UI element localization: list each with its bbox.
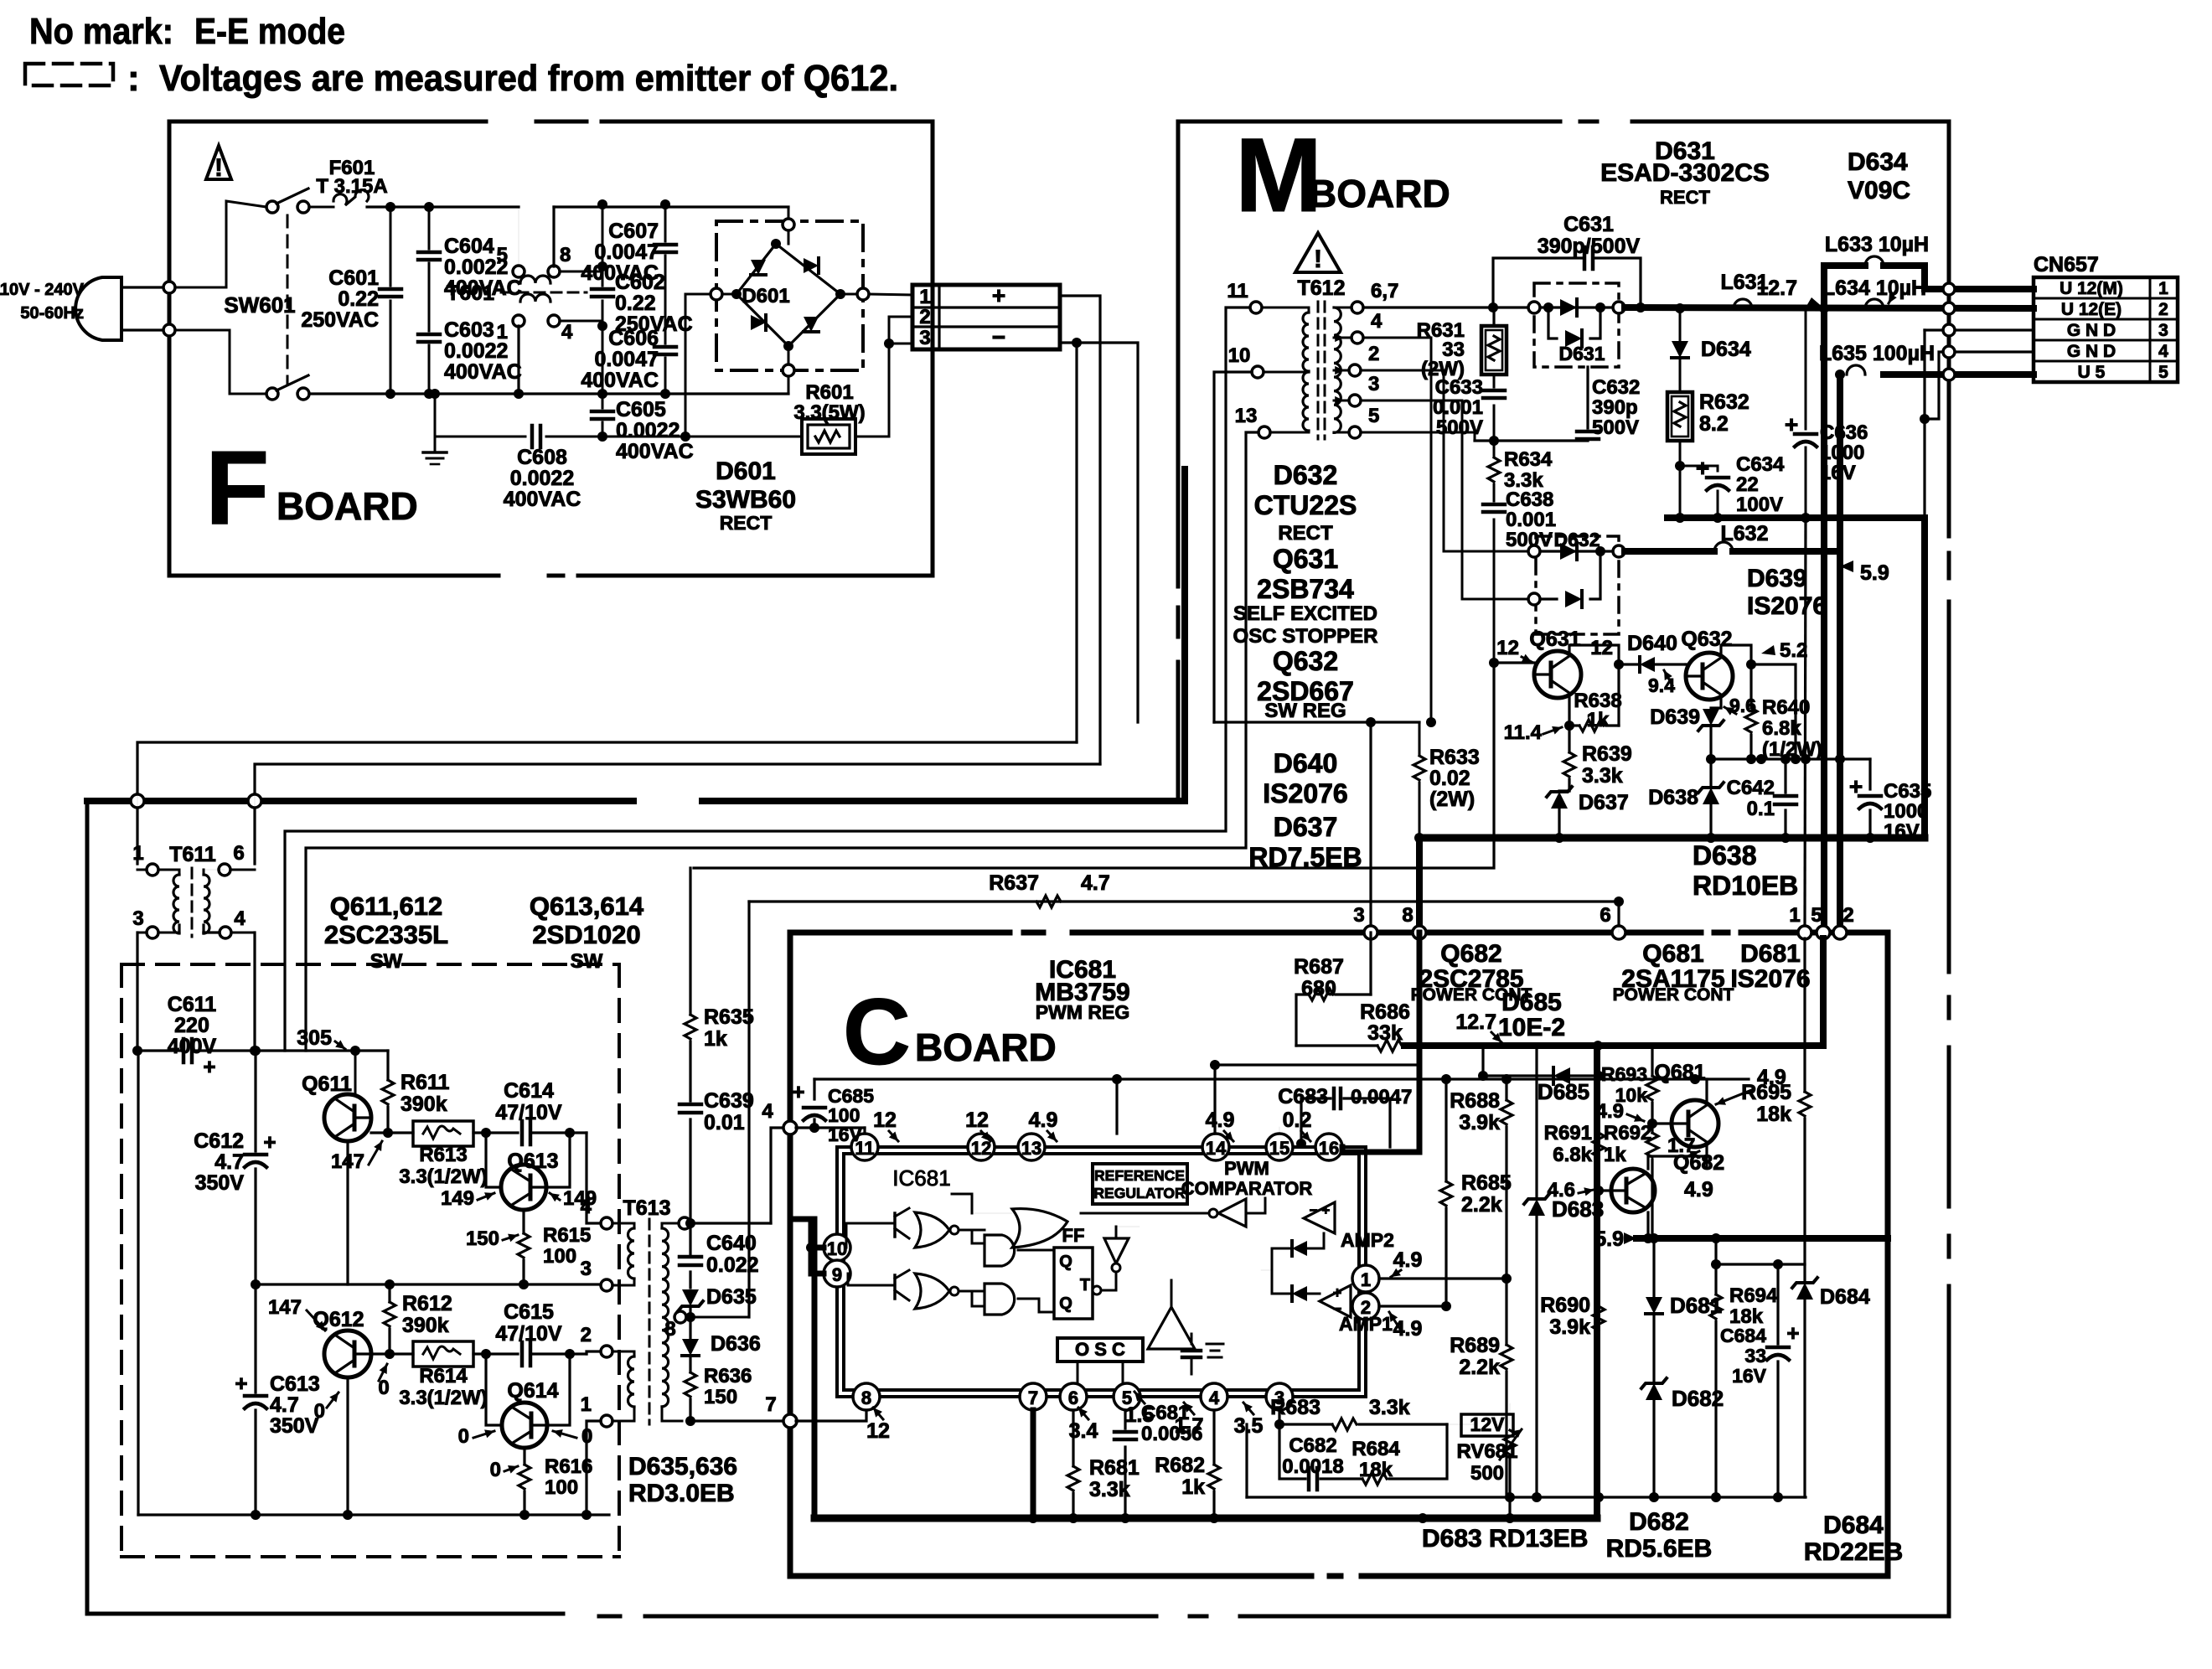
svg-text:C604: C604 [444, 235, 494, 258]
svg-text:(1/2W): (1/2W) [1762, 738, 1822, 761]
svg-text:C606: C606 [608, 327, 659, 350]
svg-text:E-E mode: E-E mode [194, 11, 345, 52]
svg-text:D636: D636 [711, 1332, 761, 1356]
diode D685 [1506, 1075, 1507, 1077]
svg-text:2: 2 [1368, 343, 1379, 365]
svg-text:220: 220 [174, 1014, 209, 1037]
resistor R614 boxed [413, 1341, 473, 1367]
svg-text:4.9: 4.9 [1596, 1100, 1624, 1123]
M board border [1178, 121, 1560, 586]
svg-text:REFERENCE: REFERENCE [1094, 1167, 1185, 1184]
svg-text:5: 5 [1368, 405, 1379, 427]
svg-text:1: 1 [1361, 1269, 1371, 1290]
svg-text:0.2: 0.2 [1283, 1108, 1312, 1132]
svg-text:+: + [203, 1054, 215, 1079]
svg-text:0.1: 0.1 [1747, 798, 1775, 820]
diode D681 [1652, 1238, 1655, 1296]
svg-text:D685: D685 [1501, 989, 1562, 1016]
capacitor C640 [689, 1223, 691, 1254]
resistor R688 [1505, 1079, 1507, 1100]
OSC box [1057, 1338, 1143, 1362]
fuse F601 [309, 206, 333, 209]
svg-text:6.8k: 6.8k [1553, 1144, 1592, 1166]
svg-text:R633: R633 [1429, 746, 1480, 769]
RV681 [1461, 1414, 1513, 1436]
wire T612 pin 6,7 to D631 [1363, 306, 1534, 308]
diode D636 [689, 1317, 691, 1338]
svg-text:400VAC: 400VAC [444, 360, 522, 384]
svg-text:R692: R692 [1604, 1122, 1651, 1145]
svg-text:4.9: 4.9 [1029, 1108, 1058, 1132]
capacitor C614 [520, 1121, 525, 1145]
wire bridge left vertex to R601 line [685, 294, 690, 437]
svg-text:0: 0 [378, 1377, 389, 1399]
svg-text:250VAC: 250VAC [301, 308, 379, 332]
resistor R686 [1296, 1044, 1377, 1046]
svg-text:0.22: 0.22 [338, 287, 379, 311]
IC681 outer double box [837, 1147, 1366, 1397]
svg-text:D638: D638 [1648, 786, 1698, 809]
svg-text::: : [127, 58, 140, 99]
svg-text:2.2k: 2.2k [1459, 1356, 1500, 1379]
svg-text:33: 33 [1744, 1345, 1766, 1367]
wire nested L y=1012 [306, 432, 1258, 1051]
wire y=862 (R633 feed) [1214, 721, 1419, 723]
wire thick left col [812, 1219, 818, 1518]
resistor R639 [1563, 752, 1575, 777]
svg-text:12.7: 12.7 [1455, 1010, 1496, 1034]
resistor R633 [1419, 722, 1421, 754]
capacitor C606 [664, 358, 667, 394]
T612 core [1317, 302, 1320, 439]
L632 + thick 5.9 rail [1625, 548, 1714, 555]
svg-text:IC681: IC681 [892, 1165, 950, 1191]
svg-text:R611: R611 [401, 1071, 449, 1094]
svg-text:C: C [843, 979, 911, 1084]
comparator OR gate [1012, 1209, 1067, 1248]
wire R601 left line y=521 [435, 436, 525, 438]
wire nested L y=912 [255, 764, 1100, 864]
wire nested L y=992 [285, 307, 1250, 1051]
svg-text:3: 3 [919, 327, 930, 349]
svg-text:33k: 33k [1367, 1021, 1403, 1045]
svg-text:C640: C640 [706, 1232, 757, 1255]
wire T612 pin3 into D632 [1361, 400, 1528, 599]
svg-text:4: 4 [1371, 310, 1382, 333]
svg-text:+: + [992, 282, 1005, 308]
svg-text:6: 6 [233, 842, 244, 865]
diode D685 [1553, 1067, 1570, 1084]
svg-text:R682: R682 [1155, 1454, 1205, 1477]
svg-text:C632: C632 [1592, 376, 1640, 399]
svg-text:12.7: 12.7 [1756, 276, 1797, 300]
svg-text:RECT: RECT [1278, 522, 1333, 545]
transistor Q614 [502, 1403, 547, 1448]
C board top pins [1364, 926, 1377, 939]
wire pin7 to C board [690, 1419, 784, 1422]
zener D682 [1646, 1383, 1662, 1400]
svg-text:149: 149 [441, 1187, 474, 1210]
svg-text:390p: 390p [1592, 396, 1638, 419]
wire pin5 down [1124, 1410, 1126, 1429]
svg-text:4.7: 4.7 [1081, 871, 1110, 895]
OR gate 1 [915, 1212, 949, 1248]
svg-text:R639: R639 [1582, 742, 1632, 766]
svg-text:R693: R693 [1601, 1063, 1647, 1085]
svg-text:C608: C608 [517, 446, 567, 469]
resistor R634 [1493, 441, 1496, 456]
transistor Q632 [1686, 653, 1733, 700]
svg-text:2: 2 [1842, 904, 1853, 927]
svg-text:390p/500V: 390p/500V [1538, 235, 1641, 258]
svg-text:S3WB60: S3WB60 [695, 486, 796, 514]
wire - output riser [1060, 343, 1138, 722]
svg-text:R613: R613 [419, 1144, 467, 1166]
svg-text:D637: D637 [1274, 812, 1338, 842]
T612 primary winding [1303, 313, 1309, 371]
svg-text:0.02: 0.02 [1429, 767, 1470, 790]
svg-text:22: 22 [1736, 473, 1759, 496]
svg-text:0.022: 0.022 [706, 1253, 759, 1277]
wire pin8 riser [552, 207, 555, 266]
svg-text:0: 0 [490, 1459, 501, 1481]
M right border wires crossing [1943, 283, 1955, 295]
svg-text:0.0047: 0.0047 [1351, 1086, 1412, 1108]
svg-text:Q631: Q631 [1273, 544, 1338, 574]
svg-text:ESAD-3302CS: ESAD-3302CS [1600, 159, 1770, 187]
wire pin6 col down [1618, 902, 1620, 933]
svg-text:SW: SW [571, 950, 603, 973]
svg-text:R635: R635 [704, 1005, 754, 1029]
svg-text:D682: D682 [1629, 1508, 1689, 1536]
wire pin4 right [560, 321, 602, 326]
wire R637 left leg [747, 902, 750, 1317]
svg-text:+: + [263, 1129, 276, 1155]
Q681 collector up [1705, 1079, 1708, 1102]
svg-text:C639: C639 [704, 1089, 754, 1113]
svg-text:16: 16 [1319, 1138, 1339, 1159]
capacitor C603 [428, 327, 431, 331]
resistor R640 [1749, 664, 1752, 706]
zener D683 [1535, 1046, 1538, 1198]
svg-text:F: F [205, 430, 269, 546]
svg-text:350V: 350V [195, 1171, 245, 1195]
svg-text:D637: D637 [1579, 791, 1629, 814]
svg-text:5.9: 5.9 [1860, 561, 1889, 585]
diode D681 [1646, 1297, 1662, 1314]
svg-text:3: 3 [581, 1258, 592, 1280]
svg-text:C603: C603 [444, 318, 494, 342]
svg-text:R683: R683 [1270, 1396, 1320, 1419]
capacitor C685 [813, 1119, 815, 1128]
C board border [790, 930, 1010, 936]
svg-text:8: 8 [560, 244, 571, 266]
T613 core [649, 1219, 651, 1424]
resistor R611 [386, 1051, 389, 1080]
wire pin5 lower [1820, 938, 1827, 1046]
capacitor C605 [602, 394, 604, 408]
svg-text:+: + [792, 1079, 804, 1104]
Q682 emitter down / 5.9 rail [1646, 1212, 1649, 1238]
wire bottom rail [138, 1513, 609, 1516]
svg-text:C601: C601 [328, 266, 379, 290]
svg-text:Q613: Q613 [507, 1150, 558, 1173]
comparator triangle [1218, 1199, 1246, 1227]
capacitor C602 [602, 204, 604, 286]
svg-text:R601: R601 [805, 381, 853, 404]
svg-text:4.7: 4.7 [270, 1393, 299, 1417]
svg-text:T: T [1080, 1276, 1090, 1294]
wire R683 loop to y1787 [1447, 1424, 1475, 1425]
svg-text:3.3k: 3.3k [1369, 1396, 1410, 1419]
wire thick col [1594, 1046, 1600, 1518]
svg-text:1: 1 [497, 321, 508, 344]
SW601 link [287, 215, 289, 384]
resistor R695 [1803, 938, 1806, 1092]
RV681 symbol [1504, 1430, 1516, 1455]
transistor Q682 [1611, 1169, 1655, 1212]
svg-text:2: 2 [919, 306, 930, 328]
svg-text:D631: D631 [1559, 343, 1605, 364]
wire Q614 emitter / R616 [523, 1448, 525, 1465]
svg-text:Q632: Q632 [1681, 628, 1732, 651]
svg-text:3.3(1/2W): 3.3(1/2W) [399, 1387, 487, 1409]
wire 5.9 rail [1636, 1235, 1888, 1242]
svg-text:9: 9 [832, 1264, 842, 1285]
warning triangle M board [1295, 233, 1341, 272]
AND gate 2 [985, 1284, 1015, 1315]
svg-text:G N D: G N D [2067, 321, 2116, 340]
svg-text:POWER CONT: POWER CONT [1613, 985, 1734, 1005]
inductor L633 [1865, 256, 1884, 266]
wire y=1077 R637 line [749, 900, 1619, 902]
svg-text:No mark:: No mark: [29, 11, 173, 52]
capacitor C615 [520, 1342, 525, 1366]
svg-text:C633: C633 [1435, 376, 1483, 399]
capacitor C607 [664, 204, 667, 241]
svg-text:680: 680 [1301, 977, 1336, 1000]
svg-text:R690: R690 [1540, 1294, 1590, 1317]
svg-text:RD10EB: RD10EB [1693, 871, 1798, 901]
wire C board bottom bus [814, 1515, 1597, 1522]
F board right border line through connector [931, 121, 935, 576]
svg-text:4: 4 [581, 1196, 592, 1218]
svg-text:3: 3 [1368, 373, 1379, 395]
svg-text:D685: D685 [1538, 1079, 1589, 1104]
svg-text:−: − [992, 324, 1005, 350]
D601 bridge rectifier [716, 221, 863, 370]
resistor R691 [1597, 1076, 1600, 1133]
AC mains plug [75, 277, 121, 340]
svg-text:C631: C631 [1563, 213, 1614, 236]
transistor Q611 [324, 1094, 371, 1141]
svg-text:12: 12 [1590, 637, 1613, 659]
svg-text:R684: R684 [1351, 1438, 1400, 1460]
svg-text:1: 1 [919, 286, 930, 308]
F board output connector [912, 285, 1060, 349]
svg-text:IS2076: IS2076 [1263, 778, 1347, 809]
wire bus y618 [1667, 514, 1925, 521]
header dashed-box legend [25, 64, 113, 85]
svg-text:3: 3 [2158, 321, 2168, 340]
svg-text:305: 305 [297, 1026, 332, 1050]
svg-text:+: + [235, 1371, 247, 1396]
internal gate transistor 2 [893, 1275, 897, 1299]
dashed voltage-measurement box [121, 963, 619, 966]
L633 branch [1824, 266, 1865, 308]
svg-text:Q611,612: Q611,612 [330, 891, 442, 921]
svg-text:R688: R688 [1450, 1089, 1500, 1113]
svg-text:11.4: 11.4 [1504, 721, 1543, 744]
svg-text:1k: 1k [1587, 709, 1610, 731]
svg-text:Q632: Q632 [1273, 646, 1338, 676]
zener D637 [1551, 792, 1568, 809]
wire T612 pin10 [1214, 372, 1252, 722]
wire pin3 col to R687 [1369, 933, 1372, 995]
wire pin6 down [1072, 1410, 1074, 1427]
svg-text:Q614: Q614 [507, 1379, 558, 1403]
Q682 base wire [1599, 1189, 1611, 1191]
wire pin5 col upper [1821, 308, 1827, 927]
svg-text:4.9: 4.9 [1393, 1317, 1423, 1341]
wire pin6 riser to 4 [771, 1128, 784, 1223]
svg-text:Q: Q [1059, 1253, 1072, 1271]
wire plug to switch [175, 201, 266, 287]
capacitor C642 [1784, 759, 1786, 793]
svg-text:Q682: Q682 [1440, 940, 1501, 968]
svg-text:3.3(5W): 3.3(5W) [793, 401, 865, 424]
svg-text:0.0022: 0.0022 [616, 419, 680, 442]
warning triangle F board [206, 146, 231, 179]
svg-text:12: 12 [971, 1138, 991, 1159]
svg-text:Voltages are measured from emi: Voltages are measured from emitter of Q6… [159, 58, 898, 99]
svg-text:R691: R691 [1544, 1122, 1592, 1145]
svg-text:13: 13 [1021, 1138, 1041, 1159]
svg-text:C682: C682 [1289, 1434, 1336, 1457]
wire 4-line into IC [796, 1126, 865, 1129]
thick wire into pins 9/10 [811, 1219, 824, 1274]
inductor L635 [1847, 365, 1865, 375]
svg-text:C684: C684 [1720, 1325, 1766, 1346]
svg-text:3.3k: 3.3k [1582, 764, 1623, 788]
svg-text:400VAC: 400VAC [581, 261, 659, 285]
svg-text:SELF EXCITED: SELF EXCITED [1233, 602, 1377, 625]
svg-text:0.001: 0.001 [1506, 509, 1556, 531]
svg-text:4: 4 [561, 321, 573, 344]
svg-text:R681: R681 [1089, 1456, 1140, 1480]
svg-text:390k: 390k [402, 1314, 449, 1337]
svg-text:SW601: SW601 [224, 292, 295, 318]
svg-text:2: 2 [2158, 300, 2168, 319]
IC681 pins right [1352, 1265, 1379, 1292]
C682 / R684 loop [1279, 1424, 1305, 1479]
wire Q612 emitter down [346, 1377, 349, 1515]
svg-text:R612: R612 [402, 1292, 452, 1315]
svg-text:3.3(1/2W): 3.3(1/2W) [399, 1165, 487, 1188]
svg-text:FF: FF [1062, 1225, 1085, 1246]
svg-text:D635,636: D635,636 [628, 1453, 737, 1480]
svg-text:R687: R687 [1294, 955, 1344, 979]
svg-text:AMP1: AMP1 [1339, 1313, 1393, 1335]
svg-text:1: 1 [2158, 279, 2168, 298]
svg-text:6.8k: 6.8k [1762, 717, 1801, 740]
resistor R635 [685, 1015, 696, 1039]
internal gate transistor 1 [893, 1213, 897, 1237]
305 marker [335, 1041, 345, 1049]
svg-text:IS2076: IS2076 [1747, 592, 1827, 620]
svg-text:16V: 16V [828, 1124, 863, 1145]
svg-text:PWM: PWM [1224, 1158, 1269, 1179]
svg-text:3.5: 3.5 [1234, 1414, 1264, 1438]
wire IC pin2 [1379, 1305, 1446, 1307]
wire T613 pin6 [679, 1217, 690, 1229]
wire Q613 emitter / R615 [522, 1210, 525, 1233]
svg-text:0.22: 0.22 [615, 292, 656, 315]
svg-text:Q681: Q681 [1642, 940, 1703, 968]
wire pin8 right [560, 266, 602, 271]
IC681 pins left [824, 1234, 850, 1261]
wire T611 pin3 down / pin4 down [137, 742, 138, 870]
svg-text:9.4: 9.4 [1648, 674, 1675, 696]
svg-text:REGULATOR: REGULATOR [1093, 1185, 1186, 1201]
ground [434, 394, 437, 452]
svg-text:BOARD: BOARD [1309, 172, 1450, 215]
svg-text:D638: D638 [1693, 840, 1757, 871]
svg-text:D683 RD13EB: D683 RD13EB [1422, 1525, 1588, 1553]
wires pins15/16 up [1279, 1127, 1280, 1134]
svg-text:RD5.6EB: RD5.6EB [1606, 1535, 1713, 1563]
svg-text:RECT: RECT [720, 512, 773, 534]
svg-text:Q681: Q681 [1654, 1061, 1705, 1084]
svg-text:18k: 18k [1359, 1459, 1393, 1481]
wire nested L y=886 [137, 742, 1077, 864]
resistor R694 [1714, 1238, 1717, 1264]
svg-text:RECT: RECT [1660, 187, 1710, 208]
svg-text:10: 10 [1228, 344, 1251, 367]
svg-text:12: 12 [866, 1419, 890, 1443]
FF box [1054, 1248, 1093, 1319]
T601 core [501, 292, 587, 294]
svg-text:100V: 100V [1736, 493, 1783, 516]
svg-text:COMPARATOR: COMPARATOR [1181, 1178, 1313, 1199]
svg-text:13: 13 [1235, 405, 1258, 427]
svg-text:D640: D640 [1274, 748, 1338, 778]
svg-text:D601: D601 [742, 285, 789, 307]
svg-text:1k: 1k [1181, 1475, 1205, 1499]
svg-text:R694: R694 [1729, 1284, 1778, 1307]
svg-text:R615: R615 [543, 1224, 591, 1247]
svg-text:OSC STOPPER: OSC STOPPER [1233, 625, 1378, 648]
zener D683 [1528, 1199, 1545, 1216]
svg-text:U 12(E): U 12(E) [2061, 300, 2122, 319]
svg-text:14: 14 [1206, 1138, 1227, 1159]
Q681 emitter down to Q682 [1705, 1145, 1708, 1167]
svg-text:D639: D639 [1650, 705, 1700, 729]
svg-text:Q631: Q631 [1529, 628, 1580, 651]
wire column x=824 top [689, 868, 691, 1015]
T613 winding lower-left [628, 1356, 634, 1407]
svg-text:R637: R637 [989, 871, 1039, 895]
wire pin4 down [1212, 1410, 1215, 1465]
svg-text:0.01: 0.01 [704, 1111, 745, 1134]
Q611 wires [371, 1131, 413, 1134]
svg-text:R634: R634 [1504, 448, 1553, 471]
transistor Q681 [1672, 1100, 1718, 1147]
capacitor C613 [254, 1284, 256, 1393]
svg-text:0.0022: 0.0022 [510, 467, 574, 490]
svg-text:+: + [1786, 1320, 1799, 1346]
IC681 pins top [851, 1134, 878, 1160]
